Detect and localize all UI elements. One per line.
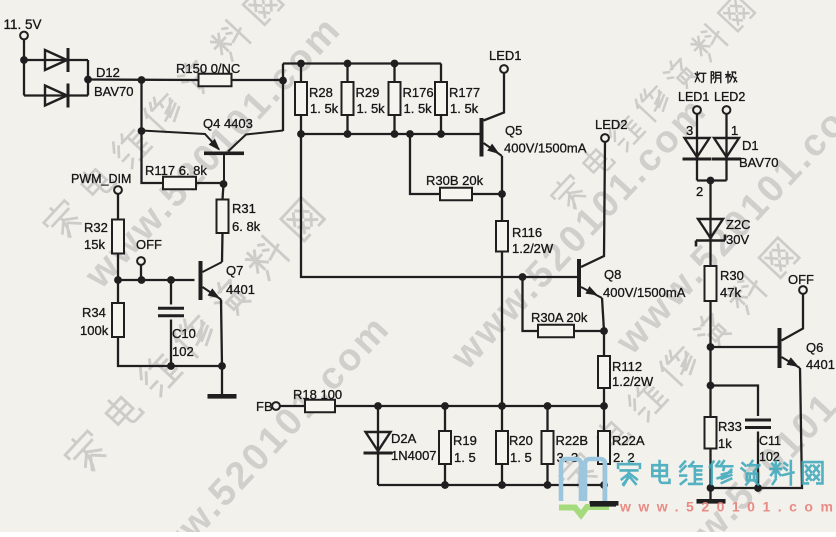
node FB bus — [544, 402, 552, 410]
wire LED1 to Q5 collector — [484, 73, 505, 120]
wire top lead R28 — [300, 64, 302, 83]
wire FB to R18 — [280, 405, 305, 407]
node rail branch — [138, 76, 146, 84]
ground Q7 — [208, 394, 237, 399]
wire D1 cathodes join — [697, 179, 727, 181]
wire R112 to FB bus — [603, 388, 605, 406]
wire LED2 to Q8 collector — [581, 142, 605, 267]
resistor R33 — [705, 417, 742, 451]
node D12 anodes — [20, 56, 28, 64]
wire LED2 to D1b — [725, 114, 727, 180]
wire R30 down to R33 — [709, 301, 711, 417]
wire bottom lead R177 — [440, 115, 442, 134]
wire dropper to R30B — [410, 134, 440, 194]
resistor R117 — [145, 163, 207, 189]
wire R117 to base node — [196, 182, 224, 184]
resistor R22B — [542, 431, 589, 465]
node OFF tap — [138, 276, 146, 284]
wire C10 bottom lead — [170, 320, 172, 367]
node bottom bus — [498, 481, 506, 489]
wire bottom lead R28 — [300, 115, 302, 134]
terminal OFF left — [137, 257, 145, 265]
wire R31 to Q7 collector — [221, 233, 224, 262]
node R30A/emitter — [600, 327, 608, 335]
terminal FB — [272, 402, 280, 410]
node D12 out — [84, 76, 92, 84]
resistor R30B — [426, 173, 484, 200]
node FB bus — [374, 402, 382, 410]
Q5 emitter arrow — [487, 144, 499, 154]
node top bus — [344, 60, 352, 68]
wire bottom lead R176 — [393, 115, 395, 134]
node C11 bottom — [754, 484, 762, 492]
wire bottom lead R22A — [603, 464, 605, 485]
wire to R30A — [523, 277, 539, 331]
Q7 emitter arrow — [208, 288, 220, 298]
wire bus riser — [282, 64, 284, 132]
transistor Q6 — [778, 328, 801, 368]
node C10 ground tap — [167, 362, 175, 370]
wire top lead R177 — [440, 64, 442, 83]
diode D12a — [45, 48, 68, 72]
wire bottom lead R20 — [501, 464, 503, 485]
resistor R20 — [496, 431, 533, 465]
node base bus — [297, 130, 305, 138]
wire 11.5V down — [23, 40, 25, 96]
wire top lead R29 — [346, 64, 348, 83]
resistor R22A — [598, 431, 645, 465]
node Q4 emitter junction — [138, 127, 146, 135]
ground mid — [590, 501, 619, 506]
diode D2A — [364, 432, 393, 453]
wire to R31 — [223, 184, 224, 200]
wire C10 top lead — [170, 280, 172, 305]
terminal LED1 — [500, 65, 508, 73]
wire Q8 emitter down — [602, 298, 604, 331]
wire Q5 emitter to R116 — [501, 156, 503, 221]
wire to Z2C — [709, 181, 711, 267]
resistor R31 — [217, 200, 261, 235]
wire Q6 emitter to bus — [711, 368, 803, 488]
terminal OFF right — [799, 286, 807, 294]
node R30A tap — [519, 273, 527, 281]
wire long bus to Q8 base — [301, 134, 577, 277]
wire R34 to ground bus — [118, 337, 222, 366]
wire R150 to bus — [232, 79, 284, 81]
wire C11 top lead — [711, 386, 759, 417]
wire C11 bottom lead — [757, 432, 759, 489]
capacitor C11 — [745, 420, 771, 428]
node bottom bus — [544, 481, 552, 489]
label lamp cathode 灯阴极 — [695, 72, 737, 83]
node R33 bottom — [707, 484, 715, 492]
node emitter/ground bus — [218, 362, 226, 370]
node FB bus — [441, 402, 449, 410]
resistor R32 — [84, 220, 124, 254]
node base bus — [406, 130, 414, 138]
wire FB bus — [335, 405, 604, 407]
wire R32 to mid bus — [117, 254, 119, 281]
zener Z2C — [696, 219, 725, 247]
transistor Q4 — [142, 131, 284, 185]
diode D1b — [712, 138, 741, 159]
wire LED1 to D1a — [696, 114, 698, 180]
node base bus — [344, 130, 352, 138]
wire bottom lead R22B — [546, 464, 548, 485]
terminal LED1 right — [693, 106, 701, 114]
wire bottom bus — [378, 484, 604, 486]
terminal 11.5V — [20, 32, 28, 40]
transistor Q5 — [480, 118, 503, 157]
resistor R34 — [80, 303, 124, 338]
node R150 output — [279, 77, 287, 85]
resistor R150 — [176, 61, 240, 86]
wire R30B to Q5 emitter — [472, 193, 502, 195]
wire OFF to Q6 collector — [782, 294, 804, 340]
svg-text:www.520101.com: www.520101.com — [619, 499, 836, 515]
wire OFF to bus — [140, 265, 142, 280]
transistor Q8 — [577, 259, 602, 298]
wire base bus Q5 — [301, 133, 480, 135]
wire R30A to emitter — [574, 330, 604, 332]
wire R33 to ground — [709, 449, 711, 500]
node D1 common — [707, 177, 715, 185]
node Q6 base tap — [707, 343, 715, 351]
wire bottom lead R19 — [444, 464, 446, 485]
node FB bus — [600, 402, 608, 410]
wire to R112 — [603, 331, 605, 356]
resistor R29 — [342, 82, 386, 116]
wire to D12b — [24, 94, 88, 96]
ground right — [697, 499, 726, 504]
node mid bus left — [114, 276, 122, 284]
wire to Q6 base — [711, 346, 778, 348]
node R30B/emitter — [498, 190, 506, 198]
wire to D12a — [24, 59, 88, 61]
resistor R177 — [435, 82, 480, 116]
diode D12b — [45, 84, 68, 108]
wire top bus — [283, 62, 441, 64]
terminal PWM_DIM — [114, 186, 122, 194]
terminal LED2 — [601, 134, 609, 142]
diode D1a — [683, 138, 712, 159]
resistor R176 — [389, 82, 434, 116]
wire to ground — [221, 366, 223, 394]
resistor R30 — [705, 266, 744, 301]
wire top lead R22A — [603, 406, 605, 431]
wire bus to R34 — [117, 280, 119, 303]
node bottom bus — [600, 481, 608, 489]
node top bus — [297, 60, 305, 68]
wire rail down to R117 — [142, 80, 164, 183]
resistor R19 — [439, 431, 477, 465]
node Q4 base / R31 — [220, 180, 228, 188]
wire D12a cathode — [87, 60, 89, 96]
node C10 tap — [167, 276, 175, 284]
Q4 emitter arrow — [209, 139, 220, 151]
capacitor C10 — [158, 308, 184, 316]
node base bus — [437, 130, 445, 138]
resistor R116 — [496, 221, 554, 256]
wire to ground mid — [603, 485, 605, 501]
wire top lead R22B — [546, 406, 548, 431]
wire rail to R150 — [88, 78, 199, 81]
node C11 tap — [707, 382, 715, 390]
resistor R112 — [598, 356, 654, 389]
wire R116 to FB bus — [501, 252, 503, 407]
wire mid bus — [118, 279, 195, 281]
node top bus — [391, 60, 399, 68]
node base bus — [391, 130, 399, 138]
resistor R18 — [293, 387, 342, 412]
wire top lead R176 — [393, 64, 395, 83]
wire Q7 emitter down — [221, 300, 222, 367]
Q8 emitter arrow — [585, 286, 598, 295]
resistor R28 — [295, 82, 339, 116]
transistor Q7 — [199, 261, 223, 300]
Q6 emitter arrow — [787, 357, 800, 367]
wire PWM to R32 — [117, 194, 119, 219]
wire D2A anode — [377, 406, 379, 485]
wire bottom lead R29 — [346, 115, 348, 134]
resistor R30A — [531, 310, 588, 337]
node bottom bus — [441, 481, 449, 489]
terminal LED2 right — [723, 106, 731, 114]
wire top lead R19 — [444, 406, 446, 431]
wire top lead R20 — [501, 406, 503, 431]
node FB bus — [498, 402, 506, 410]
